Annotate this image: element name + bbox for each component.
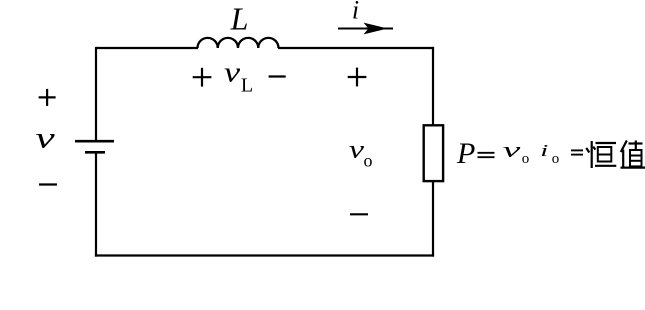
label P (formula) bbox=[456, 137, 475, 170]
wire top left segment bbox=[96, 47, 198, 49]
wire bottom bbox=[95, 254, 434, 256]
hanzi zhi (value) bbox=[621, 141, 645, 169]
load P rectangle (constant power load) bbox=[424, 125, 443, 181]
wire right vertical lower bbox=[432, 181, 434, 257]
label + (source) bbox=[39, 89, 56, 106]
label minus (output) bbox=[350, 213, 368, 215]
hanzi heng (constant) bbox=[586, 141, 616, 168]
svg-text:L: L bbox=[241, 75, 253, 97]
label minus (inductor) bbox=[269, 75, 286, 77]
inductor L bbox=[198, 38, 279, 48]
svg-text:v: v bbox=[35, 122, 55, 155]
current arrow bbox=[338, 23, 393, 35]
svg-text:L: L bbox=[230, 1, 249, 37]
label vL bbox=[224, 57, 253, 97]
wire right vertical upper bbox=[432, 47, 434, 126]
wire top right segment bbox=[278, 47, 434, 49]
equals sign 1 bbox=[478, 153, 495, 157]
svg-text:P: P bbox=[456, 137, 475, 170]
svg-text:o: o bbox=[552, 151, 560, 167]
svg-text:i: i bbox=[540, 142, 548, 161]
label vo (output voltage) bbox=[349, 137, 372, 171]
wire left vertical upper bbox=[95, 47, 97, 141]
voltage source v (battery) bbox=[75, 141, 114, 152]
label io (formula) bbox=[540, 142, 559, 167]
label minus (source) bbox=[39, 183, 57, 185]
label vo (formula) bbox=[503, 137, 530, 167]
label i (current) bbox=[352, 0, 359, 25]
label + (inductor) bbox=[193, 68, 212, 87]
label v (source) bbox=[35, 122, 55, 155]
svg-text:v: v bbox=[503, 137, 522, 162]
equals sign 2 bbox=[571, 150, 583, 154]
svg-text:o: o bbox=[522, 151, 530, 167]
svg-text:v: v bbox=[224, 57, 241, 89]
label L bbox=[230, 1, 249, 37]
svg-text:o: o bbox=[364, 151, 373, 171]
wire left vertical lower bbox=[95, 152, 97, 256]
label + (output) bbox=[348, 68, 367, 87]
svg-text:i: i bbox=[352, 0, 359, 25]
